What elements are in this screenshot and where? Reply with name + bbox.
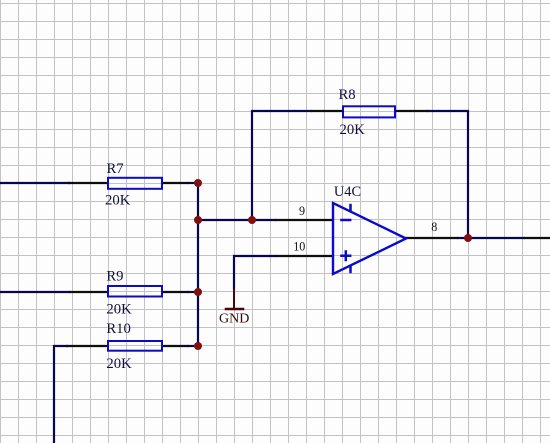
svg-text:10: 10 [293,239,305,253]
wire: R8 loop top right and right vertical down to output [427,111,468,239]
ground GND power port [219,289,249,327]
svg-text:20K: 20K [106,356,132,372]
svg-text:20K: 20K [105,193,131,209]
pin 9 [275,219,333,221]
svg-text:20K: 20K [340,122,366,138]
svg-text:GND: GND [219,312,249,327]
junction at bus / pin 9 net [194,216,202,224]
wire: R7 to bus junction [188,182,199,184]
svg-text:R8: R8 [339,87,356,103]
junction at R7 / bus [194,179,202,187]
svg-text:20K: 20K [106,302,132,318]
junction at R10 / bus [194,342,202,350]
svg-text:R9: R9 [106,268,123,284]
junction at output / R8 loop [464,234,472,242]
resistor R9 [69,268,189,317]
pin stub of off-page part at right edge [524,237,550,239]
op-amp U4C [275,184,458,274]
svg-text:9: 9 [299,204,305,218]
wire: R10 to bus junction [188,345,199,347]
power stub top [349,204,352,212]
power stub bottom [349,265,352,273]
resistor R8 [311,87,428,138]
junction at R9 / bus [194,288,202,296]
wire: R9 to bus junction [188,291,199,293]
svg-text:8: 8 [431,220,437,234]
wire: bus to op-amp pin 9 [197,219,276,221]
wire: left edge into R9 [0,291,70,293]
svg-text:U4C: U4C [334,184,361,200]
svg-text:R7: R7 [107,161,124,177]
plus input mark [340,250,351,261]
wire: bottom edge up and into R10 [54,346,68,443]
wire: R8 loop left vertical and top left [252,111,312,221]
pin 8 [405,237,458,239]
wire: GND corner into op-amp pin 10 [234,256,276,290]
wire: op-amp output to right edge [457,237,525,239]
resistor R10 [66,321,189,372]
pin 10 [275,255,333,257]
triangle body [333,203,406,274]
wire: vertical bus R7/pin9/R9/R10 [197,182,199,347]
minus input mark [340,219,351,222]
wire: left edge into R7 [0,182,70,184]
junction at R8 loop / pin 9 net [248,216,256,224]
resistor R7 [68,161,189,209]
svg-text:R10: R10 [106,321,130,337]
